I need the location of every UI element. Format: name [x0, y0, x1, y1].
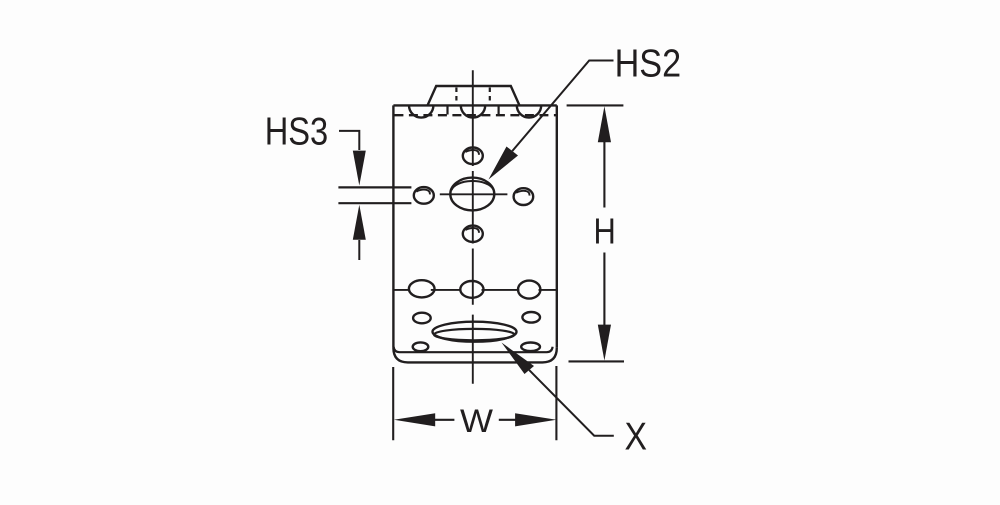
svg-text:HS3: HS3	[265, 111, 329, 154]
svg-text:X: X	[625, 415, 648, 458]
svg-text:H: H	[594, 211, 616, 252]
svg-text:HS2: HS2	[615, 43, 682, 86]
svg-text:W: W	[460, 403, 493, 439]
